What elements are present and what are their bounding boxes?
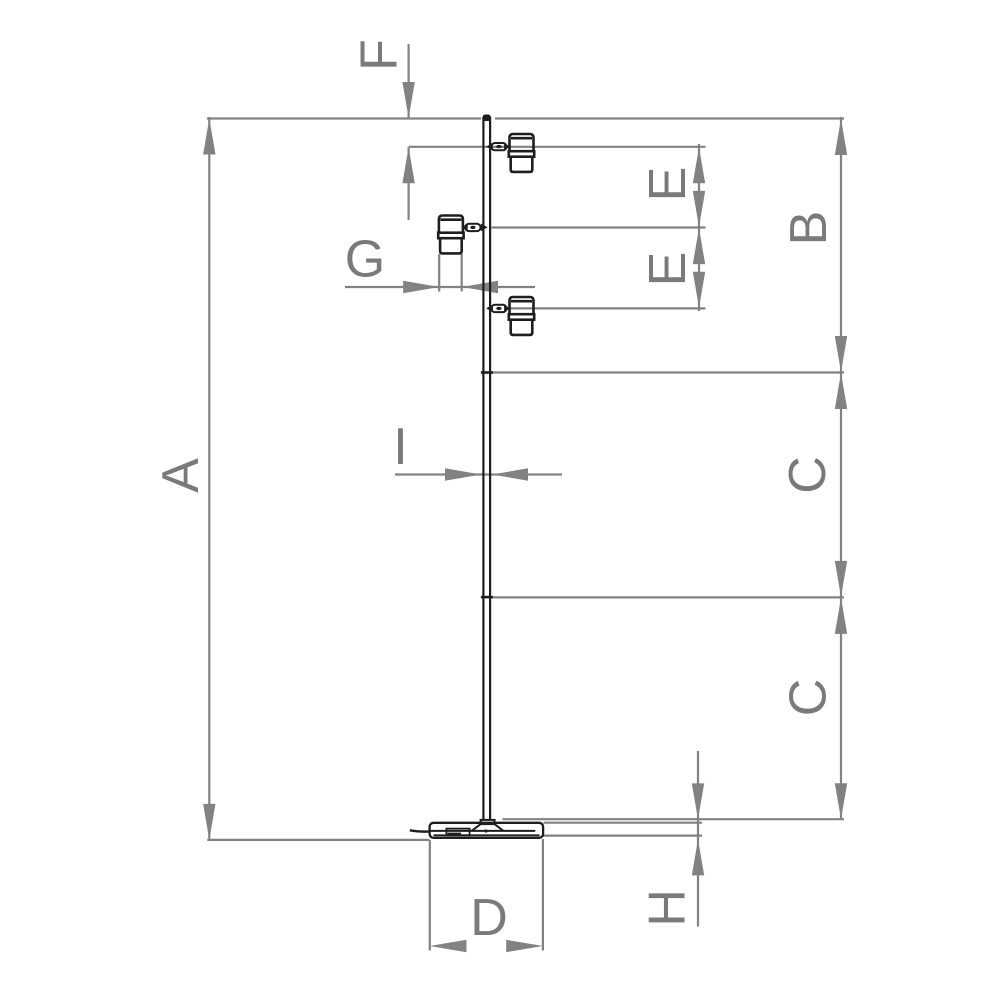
pole right line xyxy=(489,117,491,821)
svg-text:C: C xyxy=(779,456,837,494)
G extension line right xyxy=(461,254,463,292)
arrow G right xyxy=(462,281,498,293)
dimension chain right line (B,C,C) xyxy=(840,117,842,820)
arrow D right xyxy=(506,940,543,952)
pole joint tick 1 xyxy=(481,371,493,374)
dimension H line xyxy=(697,751,699,927)
dimension F line upper part xyxy=(408,44,410,119)
arrow E2 top xyxy=(693,228,705,264)
svg-text:G: G xyxy=(345,231,385,289)
arrow H down xyxy=(692,783,704,819)
extension line spot3 axis xyxy=(508,307,706,309)
base mound slant left xyxy=(472,824,481,831)
svg-text:C: C xyxy=(780,679,838,717)
bracket 1 pole clamp xyxy=(486,143,493,151)
pole joint tick 2 xyxy=(481,596,493,599)
base bottom rim xyxy=(434,834,540,836)
svg-text:E: E xyxy=(639,167,697,202)
bracket 1 stadium xyxy=(491,143,506,150)
pole left line xyxy=(482,117,484,821)
extension line base collar top xyxy=(503,818,845,820)
bracket 2 head pin xyxy=(462,224,468,231)
arrow right bottom xyxy=(835,783,847,819)
dim line top horizontal (overall top extent) xyxy=(207,117,844,119)
extension line base top edge xyxy=(544,822,703,824)
extension line pole joint 2 xyxy=(492,596,845,598)
base mid line xyxy=(431,830,536,832)
dimension G line xyxy=(345,286,535,288)
base gear box xyxy=(446,829,469,836)
arrow A bottom xyxy=(203,804,215,840)
arrow A top xyxy=(203,119,215,155)
dimension E line xyxy=(698,144,700,311)
extension line overall bottom xyxy=(207,839,429,841)
svg-text:F: F xyxy=(351,39,409,71)
bracket 1 head pin xyxy=(504,143,510,150)
bracket 2 pivot dot xyxy=(470,226,475,229)
svg-text:A: A xyxy=(152,458,210,493)
svg-text:D: D xyxy=(470,889,508,947)
bracket 3 stadium xyxy=(491,305,506,312)
bracket 2 stadium xyxy=(465,224,480,231)
G extension line left xyxy=(438,254,440,292)
spotlight head 1 (top right) xyxy=(509,134,534,172)
dimension A line xyxy=(208,117,210,841)
arrow F down xyxy=(402,82,414,118)
arrow G left xyxy=(403,281,439,293)
spotlight head 2 (left) xyxy=(438,216,463,254)
base plate outline xyxy=(430,823,543,838)
svg-text:B: B xyxy=(780,211,838,246)
arrow E1 bottom xyxy=(693,191,705,227)
arrow I right xyxy=(492,468,528,480)
svg-text:H: H xyxy=(639,889,697,927)
base gear box dark dash xyxy=(448,833,462,836)
dimension I line xyxy=(395,473,562,475)
svg-text:I: I xyxy=(393,418,407,476)
arrow E1 top xyxy=(693,147,705,183)
base screw dot xyxy=(484,829,487,832)
bracket 3 pivot dot xyxy=(496,307,501,310)
bracket 1 pivot dot xyxy=(496,145,501,148)
arrow pair at joint2 xyxy=(835,561,847,597)
extension line pole joint 1 xyxy=(492,371,845,373)
extension line spot1 axis xyxy=(409,146,706,148)
dimension F line lower part xyxy=(408,147,410,220)
arrow D left xyxy=(430,940,467,952)
arrow F up xyxy=(402,147,414,183)
arrow E2 bottom xyxy=(693,272,705,308)
arrow pair at joint1 xyxy=(835,336,847,372)
arrow H up xyxy=(692,839,704,875)
extension line base bottom rim xyxy=(544,834,703,836)
extension line spot2 axis xyxy=(492,226,706,228)
arrow I left xyxy=(445,468,481,480)
bracket 3 pole clamp xyxy=(486,305,493,313)
base mound slant right xyxy=(495,824,504,831)
spotlight head 3 (lower right) xyxy=(509,297,534,335)
power cable xyxy=(410,830,431,831)
arrow B top xyxy=(835,119,847,155)
D extension line left xyxy=(429,840,431,951)
D extension line right xyxy=(542,839,544,951)
bracket 3 head pin xyxy=(504,305,510,312)
svg-text:E: E xyxy=(639,252,697,287)
base collar xyxy=(481,820,495,824)
bracket 2 pole clamp xyxy=(481,224,488,232)
pole top cap xyxy=(483,115,491,122)
